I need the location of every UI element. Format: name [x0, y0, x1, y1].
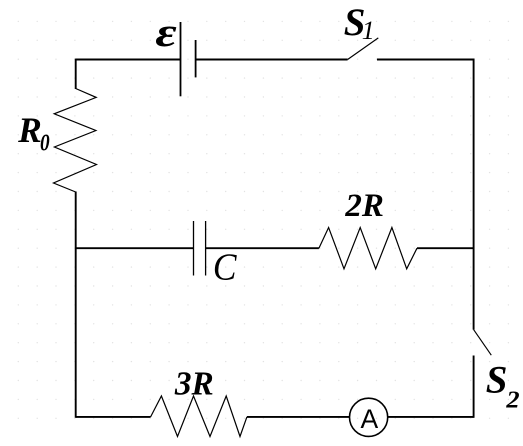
svg-text:3R: 3R — [174, 365, 214, 402]
switch S2 blade — [474, 330, 492, 356]
capacitor plate left — [193, 221, 195, 276]
svg-text:2R: 2R — [344, 188, 384, 224]
battery plate long — [180, 22, 182, 96]
wire right vertical upper — [473, 59, 475, 330]
resistor 3R — [151, 396, 247, 437]
svg-text:0: 0 — [40, 128, 50, 156]
capacitor plate right — [205, 221, 207, 276]
svg-text:2: 2 — [505, 385, 520, 413]
svg-text:ε: ε — [155, 10, 176, 55]
wire middle-left segment — [76, 247, 194, 249]
wire bottom-middle segment — [247, 416, 350, 418]
wire top-middle segment — [196, 59, 348, 61]
svg-text:C: C — [213, 246, 238, 289]
wire left vertical upper — [75, 59, 77, 89]
wire bottom-right segment — [388, 416, 474, 418]
svg-text:R: R — [17, 110, 42, 150]
svg-text:S: S — [486, 358, 508, 401]
label EMF epsilon — [155, 10, 176, 55]
wire left vertical lower — [75, 192, 77, 418]
ammeter circle — [350, 398, 388, 436]
wire middle segment — [206, 247, 319, 249]
resistor R0 — [54, 89, 97, 193]
label R0 subscript 0 — [40, 128, 50, 156]
wire right vertical lower — [473, 356, 475, 418]
wire top-left segment — [76, 59, 181, 61]
wire middle-right segment — [417, 247, 474, 249]
wire bottom-left segment — [76, 416, 151, 418]
wire top-right segment — [377, 59, 475, 61]
svg-text:1: 1 — [362, 16, 375, 45]
svg-text:A: A — [361, 404, 379, 434]
label 3R — [174, 365, 214, 402]
label S2 subscript 2 — [505, 385, 520, 413]
battery plate short — [195, 40, 197, 77]
resistor 2R — [319, 228, 417, 269]
label C — [213, 246, 238, 289]
switch S1 blade — [348, 38, 379, 60]
